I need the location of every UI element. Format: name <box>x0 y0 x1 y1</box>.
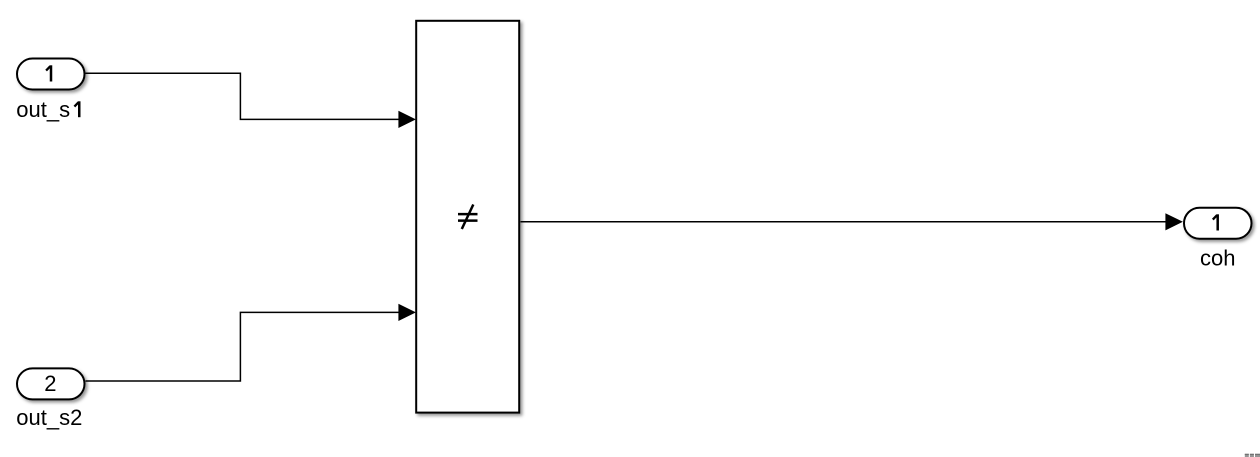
not-equal sign: top bar <box>458 213 478 216</box>
not-equal sign: bottom bar <box>458 219 478 222</box>
not-equal sign: diagonal stroke <box>462 205 474 230</box>
Outport port number digit 1 (flag) <box>1213 215 1217 219</box>
arrowhead into Relational Operator input 1 <box>398 111 416 128</box>
svg-text:2: 2 <box>44 371 56 396</box>
window resize grip squares bottom-right <box>1245 454 1260 457</box>
svg-text:out_s: out_s <box>16 97 70 122</box>
Inport 1 port number digit 1 (stem) <box>50 65 53 81</box>
wire from Inport out_s2 to Relational Operator input 2 <box>86 312 400 381</box>
svg-text:coh: coh <box>1200 246 1235 271</box>
arrowhead into Relational Operator input 2 <box>398 304 416 321</box>
Outport block coh (port 1) <box>1184 208 1252 239</box>
wire from Inport out_s1 to Relational Operator input 1 <box>86 73 400 119</box>
arrowhead into Outport coh <box>1165 213 1183 230</box>
Outport port number digit 1 (stem) <box>1216 214 1219 230</box>
Inport 1 port number digit 1 (flag) <box>46 66 50 70</box>
Inport block out_s1 (port 1) <box>17 59 85 90</box>
svg-text:out_s2: out_s2 <box>16 405 82 430</box>
wire from Relational Operator output to Outport coh <box>521 221 1167 223</box>
Inport block out_s2 (port 2) <box>17 368 85 399</box>
Relational Operator block (not-equal) <box>416 21 519 413</box>
